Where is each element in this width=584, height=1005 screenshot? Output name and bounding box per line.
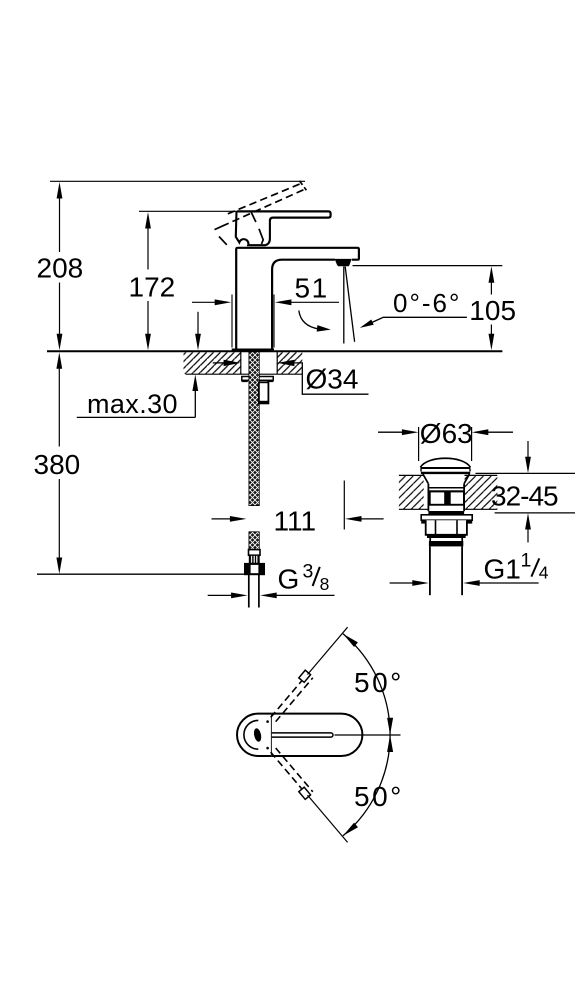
handle raised position (dashed)	[215, 181, 307, 245]
dimension Ø63	[378, 418, 513, 449]
pop-up waste cap dome	[420, 458, 470, 473]
svg-text:111: 111	[274, 505, 317, 536]
svg-text:1: 1	[521, 550, 532, 572]
waste neck and collar	[429, 538, 463, 546]
supply hose braid upper	[249, 352, 259, 506]
top view cartridge cap	[237, 714, 272, 756]
extension lines 32-45	[476, 472, 576, 474]
G3/8 thread tube	[249, 574, 259, 607]
handle lever (solid, lowered)	[237, 211, 331, 220]
faucet body and spout outline	[236, 248, 359, 350]
waste tailpipe	[430, 546, 462, 595]
svg-text:172: 172	[129, 272, 176, 303]
dimension 208	[37, 182, 84, 350]
svg-text:208: 208	[37, 253, 84, 284]
dimension G1 1/4	[390, 580, 539, 586]
basin hatched section	[399, 475, 497, 509]
mounting stud	[259, 382, 269, 403]
svg-text:32-45: 32-45	[491, 480, 558, 511]
waste body in basin	[428, 484, 464, 515]
waste horseshoe washer	[421, 515, 472, 524]
tick marker upper	[299, 670, 311, 682]
svg-text:Ø34: Ø34	[306, 364, 359, 395]
swing arc upper 50°	[343, 634, 404, 735]
countertop hatched section	[184, 352, 303, 374]
leader ray lower	[308, 795, 348, 842]
svg-text:51: 51	[295, 272, 329, 303]
extension line top of handle travel (208 ref)	[50, 180, 305, 182]
spray angle swivel arc arrow	[299, 311, 331, 332]
dimension 380	[34, 352, 81, 574]
hose end reference line	[37, 573, 244, 575]
tick marker lower	[299, 787, 311, 799]
dashed raised position lower	[271, 748, 313, 796]
top view handle body	[272, 714, 363, 756]
dimension max.30 upper arrow	[195, 312, 201, 351]
hex nut of G3/8 fitting	[245, 564, 264, 574]
dimension Ø34 with leader	[213, 360, 369, 395]
svg-text:G: G	[278, 564, 300, 595]
svg-text:50°: 50°	[354, 667, 404, 698]
dimension 111	[212, 481, 384, 537]
svg-text:G1: G1	[484, 553, 521, 584]
hose collar	[249, 550, 261, 556]
water stream lines	[343, 267, 345, 344]
dimension 172	[129, 212, 176, 350]
svg-text:50°: 50°	[354, 781, 404, 812]
extension line handle top (172 ref)	[139, 210, 237, 212]
extension lines Ø63	[418, 427, 420, 461]
base plinth bar	[232, 349, 274, 351]
waste mounting hex nut	[426, 520, 467, 538]
svg-text:380: 380	[34, 449, 81, 480]
mounting washer under deck	[242, 377, 274, 383]
mounting hole edges	[240, 352, 242, 374]
svg-text:3: 3	[303, 561, 314, 583]
svg-text:Ø63: Ø63	[420, 418, 473, 449]
svg-text:8: 8	[320, 574, 330, 594]
cap detail dots	[266, 720, 269, 723]
flange neck	[423, 474, 470, 484]
swing arc lower 50°	[343, 735, 404, 836]
label max.30 with leader	[77, 375, 198, 420]
label G 3/8	[278, 561, 330, 595]
top view lever slot	[272, 733, 333, 737]
dimension 105	[469, 266, 516, 350]
extension line spout outlet level (105 ref)	[353, 265, 503, 267]
supply hose braid lower	[249, 532, 259, 550]
label 0°-6° with leader	[360, 288, 467, 328]
knurled section	[249, 555, 259, 563]
axis reference line	[335, 734, 401, 736]
svg-text:4: 4	[539, 562, 549, 582]
handle base	[236, 211, 270, 245]
leader ray upper	[308, 627, 348, 674]
svg-text:0°-6°: 0°-6°	[393, 288, 461, 318]
svg-text:105: 105	[469, 295, 516, 326]
dimension G3/8	[208, 593, 335, 599]
aerator outlet	[335, 259, 352, 266]
dashed raised position upper	[271, 673, 313, 721]
extension lines base width (51 ref)	[231, 295, 233, 348]
countertop line	[47, 350, 502, 352]
logo blob on cap	[253, 728, 262, 743]
label G1 1/4	[484, 550, 549, 585]
svg-text:max.30: max.30	[87, 389, 178, 419]
dimension 51	[192, 272, 339, 305]
dimension 32-45	[491, 441, 558, 543]
